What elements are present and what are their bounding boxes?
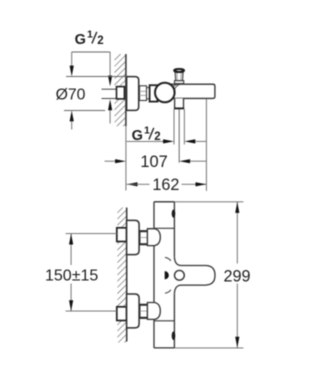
black set-screw mark [165,271,169,279]
G1/2 (lower) left arrow [163,139,174,143]
svg-text:107: 107 [140,153,167,171]
junction arc bottom [165,290,171,294]
299 top arrow [235,202,239,213]
spout-body junction arcs [171,84,177,89]
top union: escutcheon [127,220,140,254]
screw detail top [172,210,176,218]
wall extension line down to dimensions [125,126,127,190]
150 extension bottom [66,310,117,312]
svg-text:G: G [75,32,86,48]
150 bottom arrow [69,300,73,311]
162 dimension line [127,183,150,185]
G1/2 wall union square [117,87,125,99]
Ø70 bottom extension line [64,110,105,112]
G1/2 (lower) dimension line [127,140,164,142]
label G1/2 (top) [75,28,104,48]
outlet centre line [178,109,180,163]
top union: wall nut [117,228,127,242]
arrow up to union bottom + tail [108,99,112,110]
G1/2 (lower) right arrow [184,139,195,143]
supply pipe in wall [102,89,117,98]
shower outlet nipple [175,98,184,108]
Ø70 bottom arrow + tail [70,111,74,122]
diverter knob top rim [174,69,184,72]
valve body rect [150,85,158,101]
svg-text:1: 1 [87,28,93,40]
299 extension top [174,201,243,203]
thermostat knob circle (top view) [155,83,175,103]
wall hatch (front view) [117,208,126,343]
union nut (top view) [140,86,147,101]
150 extension top [66,233,117,235]
162 right arrow [196,182,207,186]
wall hatch (top view) [115,54,126,126]
spout (top view) [168,84,215,98]
150 top arrow [69,234,73,245]
svg-text:162: 162 [152,176,179,194]
162 left arrow [127,182,138,186]
G1/2 (top) bracket [72,51,110,53]
svg-text:1: 1 [144,124,150,136]
bottom union: wall nut [117,307,127,321]
spout-end extension line [205,99,207,191]
svg-text:Ø70: Ø70 [56,86,86,103]
bottom union: cap nut [147,303,160,320]
escutcheon (top view) [127,77,139,111]
Ø70 top extension line [66,76,127,78]
outlet extension lines [173,109,175,145]
107 left arrow [115,159,126,163]
svg-text:150±15: 150±15 [45,268,98,285]
junction arc top [165,257,171,261]
wall face line (front view) [126,208,128,342]
299 extension bottom [174,347,243,349]
top union: cap nut [147,229,160,246]
107 right tail [190,160,207,162]
299 dimension line [236,202,238,264]
screw detail bottom [172,331,176,340]
arrow down to union top [108,76,112,87]
107 right arrow [179,159,190,163]
small connector [147,88,150,99]
G1/2 (lower) right tail [195,140,206,142]
label G1/2 (lower) [132,124,161,144]
bottom union: connector [140,304,147,318]
diverter knob stem flange [175,81,184,84]
svg-text:299: 299 [224,267,251,285]
bottom union: escutcheon [127,294,140,328]
arrow down to escutcheon top [70,66,74,77]
wall face line (top view) [125,54,127,126]
faucet body [154,202,174,348]
lever handle [174,257,215,294]
body shoulder lines [154,227,174,229]
svg-text:2: 2 [97,35,103,47]
299 bottom arrow [235,337,239,348]
diverter knob body [175,72,183,80]
lever pivot circle [175,270,185,280]
top union: connector [140,231,147,245]
150 dimension line [70,234,72,265]
